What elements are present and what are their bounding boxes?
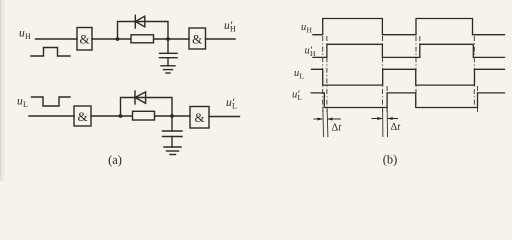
wire diode branch (node A up, across, down to node B) [118, 22, 169, 40]
wire node D to U4 [172, 115, 190, 117]
svg-text:Δt: Δt [391, 122, 402, 133]
waveform trace u_L [312, 69, 505, 85]
wire u_H input to U1 [36, 38, 78, 40]
node C junction [119, 114, 123, 118]
svg-text:u: u [301, 22, 306, 33]
guideline t4 (u_H fall 2 / u_L rise 2) [473, 36, 475, 110]
guideline t1 (u_H rise) [322, 36, 324, 112]
AND gate U2 [189, 28, 206, 49]
label u_L (waveform) [294, 68, 305, 81]
resistor R1 [131, 35, 154, 43]
AND gate U4 [190, 107, 209, 129]
wire u_L input to U3 [29, 115, 74, 117]
label u'_L (waveform) [292, 90, 303, 103]
wire node C to node D through R2 [121, 115, 173, 117]
label u_H (waveform) [301, 22, 313, 35]
guideline t3 (u_H rise 2) [415, 36, 417, 110]
input pulse icon (positive pulse) [31, 48, 70, 57]
svg-text:&: & [194, 110, 204, 125]
svg-text:H: H [230, 25, 236, 34]
wire node B to U2 [168, 38, 189, 40]
svg-text:L: L [298, 93, 303, 102]
ground (bottom channel) [164, 147, 181, 155]
dimension arrows delta-t (first) [314, 118, 341, 121]
wire U1 output to node A [92, 38, 118, 40]
label u'_L output [226, 97, 237, 111]
ground (top channel) [161, 66, 175, 73]
wire node A to node B through R1 [118, 38, 169, 40]
guideline t2+dt (u'_L rise) [386, 86, 388, 112]
svg-text:L: L [232, 102, 237, 111]
diode D1 [135, 15, 145, 28]
guideline t2 (u_H fall / u_L rise) [382, 36, 384, 112]
svg-text:H: H [310, 49, 316, 58]
guideline t1+dt (u'_H rise) [326, 36, 328, 112]
paper background [0, 0, 512, 181]
node D junction [170, 114, 174, 118]
dimension arrows delta-t (second) [372, 117, 399, 120]
node A junction [116, 37, 120, 41]
node B junction [166, 37, 170, 41]
input pulse icon (negative pulse) [32, 97, 71, 106]
guideline t3+dt (u'_H rise 2) [419, 36, 421, 58]
waveform trace u'_H [313, 44, 505, 57]
label u_L input [17, 96, 28, 110]
label delta-t (first) [332, 123, 343, 134]
waveform trace u'_L [311, 93, 504, 108]
label u'_H (waveform) [305, 46, 317, 59]
solid guideline extensions near dimension arrows [323, 108, 388, 137]
svg-text:Δt: Δt [332, 123, 343, 134]
wire U2 output u'_H [206, 38, 236, 40]
AND gate U1 [77, 28, 92, 51]
svg-text:(a): (a) [108, 153, 122, 167]
svg-text:(b): (b) [383, 153, 398, 167]
label delta-t (second) [391, 122, 402, 133]
wire U3 output to node C [91, 115, 121, 117]
waveform trace u_H [313, 19, 505, 35]
capacitor C2 [163, 116, 183, 147]
diode D2 [135, 91, 146, 104]
resistor R2 [133, 111, 155, 120]
svg-text:L: L [300, 72, 305, 81]
dashed guidelines [323, 36, 478, 112]
AND gate U3 [74, 106, 91, 126]
svg-text:&: & [77, 109, 87, 124]
svg-text:&: & [79, 32, 89, 47]
capacitor C1 [160, 39, 178, 66]
wire U4 output u'_L [209, 116, 240, 118]
svg-text:H: H [307, 26, 313, 35]
guideline t4+dt (u'_L rise 2) [477, 86, 479, 112]
svg-text:&: & [192, 32, 202, 47]
svg-text:L: L [23, 100, 28, 109]
svg-text:H: H [25, 32, 31, 41]
label u_H input [19, 28, 31, 42]
svg-text:u: u [294, 68, 299, 79]
label u'_H output [224, 20, 236, 34]
wire diode branch (node C up, across, down to node D) [121, 98, 173, 117]
